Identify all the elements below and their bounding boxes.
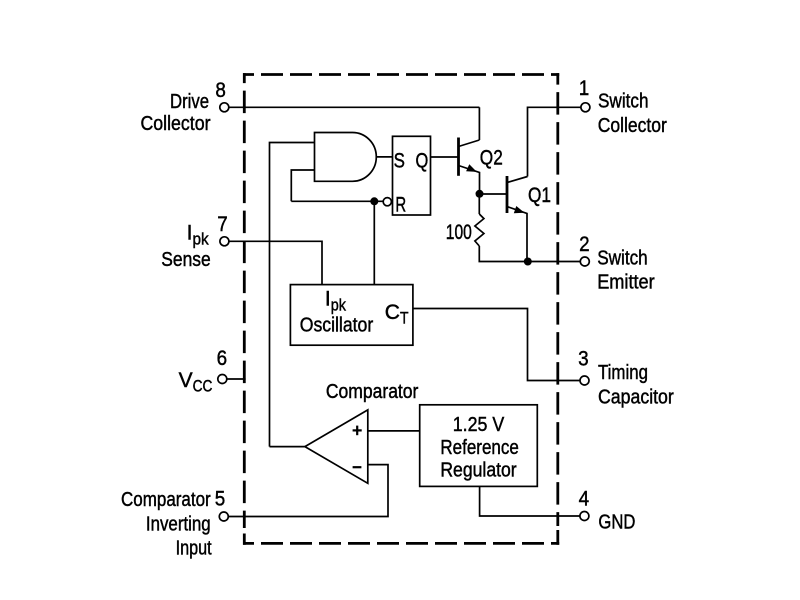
resistor 100 lead top (478, 194, 480, 214)
label Switch Collector (598, 91, 667, 138)
wire comparator plus input (368, 430, 420, 432)
svg-text:Input: Input (176, 538, 212, 560)
svg-text:Inverting: Inverting (146, 513, 211, 535)
svg-text:Capacitor: Capacitor (598, 386, 674, 408)
wire AND gate bottom input (291, 170, 314, 201)
svg-text:S: S (394, 150, 405, 173)
svg-text:Switch: Switch (597, 248, 648, 270)
svg-text:Timing: Timing (598, 362, 648, 384)
label Ipk Sense (161, 221, 210, 270)
IC boundary dashed border (243, 73, 559, 545)
pin 8 terminal (220, 103, 229, 112)
wire CT to pin3 (413, 309, 580, 381)
label Timing Capacitor (598, 362, 674, 408)
pin 3 terminal (580, 376, 589, 385)
svg-text:4: 4 (579, 488, 590, 511)
wire Q output to Q2 base (431, 156, 459, 158)
label Drive Collector (141, 91, 211, 135)
wire AND gate top input (270, 143, 315, 447)
pin 2 terminal (580, 257, 589, 266)
wire pin8 to Q2 collector (229, 106, 480, 108)
Q2 emitter arrow (466, 164, 477, 172)
comparator op-amp triangle (305, 410, 368, 483)
svg-text:1.25 V: 1.25 V (453, 414, 505, 436)
svg-text:1: 1 (579, 77, 590, 100)
svg-text:Collector: Collector (598, 115, 667, 137)
svg-text:8: 8 (215, 79, 226, 102)
wire pin5 to comparator inverting input (228, 465, 388, 517)
pin 6 terminal (218, 375, 227, 384)
AND gate (315, 133, 377, 182)
svg-text:Sense: Sense (161, 249, 210, 271)
wire comparator output (270, 446, 305, 448)
svg-text:2: 2 (579, 233, 590, 256)
svg-text:Q2: Q2 (480, 146, 503, 169)
wire AND output to S (376, 156, 392, 158)
svg-text:Drive: Drive (170, 91, 209, 113)
svg-text:Q1: Q1 (528, 184, 551, 207)
svg-text:Collector: Collector (141, 113, 211, 135)
svg-text:7: 7 (217, 213, 228, 236)
transistor Q1 (480, 176, 528, 262)
reference regulator box (420, 405, 538, 487)
wire emitter rail to pin2 (479, 246, 580, 262)
pin 5 terminal (219, 512, 228, 521)
svg-text:R: R (395, 193, 406, 216)
latch R inversion bubble (383, 198, 391, 206)
svg-text:Comparator: Comparator (326, 381, 419, 403)
SR latch U1 (393, 136, 431, 215)
Q1 emitter arrow (514, 206, 525, 213)
pin 4 terminal (580, 512, 589, 521)
svg-text:Q: Q (416, 150, 429, 173)
wire pin6 stub (227, 378, 246, 380)
label Comparator Inverting Input (121, 489, 212, 560)
svg-text:Oscillator: Oscillator (300, 314, 374, 336)
svg-text:Reference: Reference (440, 437, 518, 459)
svg-text:Emitter: Emitter (597, 272, 655, 294)
svg-text:5: 5 (215, 488, 226, 511)
svg-text:GND: GND (598, 512, 635, 534)
svg-text:Switch: Switch (598, 91, 649, 113)
comparator minus sign (353, 466, 362, 468)
wire pin1 to Q1 collector (528, 107, 581, 176)
svg-text:100: 100 (446, 221, 472, 244)
oscillator box (290, 285, 413, 346)
pin 7 terminal (220, 237, 229, 246)
label Switch Emitter (597, 248, 655, 294)
wire reference regulator to pin4 (480, 486, 580, 516)
junction dot R line (370, 197, 378, 205)
resistor 100 (475, 214, 484, 246)
wire pin7 to oscillator top (229, 241, 322, 284)
transistor Q2 (459, 107, 480, 194)
junction dot Q1 emitter / pin2 rail (524, 258, 532, 266)
svg-text:3: 3 (578, 348, 589, 371)
wire R junction to oscillator (373, 201, 375, 284)
junction dot Q2 emitter / Q1 base (476, 190, 484, 198)
pin 1 terminal (581, 103, 590, 112)
comparator plus sign (353, 426, 362, 436)
svg-text:Regulator: Regulator (440, 459, 517, 481)
svg-text:6: 6 (217, 347, 228, 370)
svg-text:Comparator: Comparator (121, 489, 211, 511)
wire R input line (291, 200, 383, 202)
